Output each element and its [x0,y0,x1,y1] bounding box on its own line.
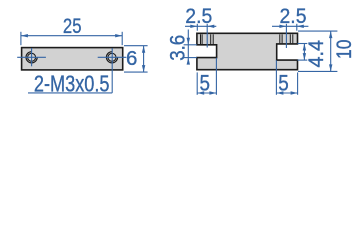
svg-text:25: 25 [63,14,82,38]
svg-text:10: 10 [332,39,353,59]
svg-text:5: 5 [278,70,289,95]
svg-text:2.5: 2.5 [185,4,212,28]
svg-text:6: 6 [126,47,137,70]
svg-text:5: 5 [200,70,211,95]
svg-text:2-M3x0.5: 2-M3x0.5 [34,70,110,96]
svg-text:3.6: 3.6 [165,35,189,61]
svg-text:2.5: 2.5 [280,4,307,28]
svg-text:4.4: 4.4 [304,40,328,68]
